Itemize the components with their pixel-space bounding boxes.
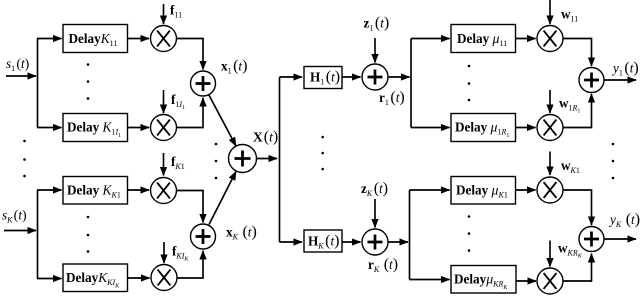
delay block KIK [63, 264, 128, 292]
svg-text:fK1: fK1 [171, 154, 185, 171]
wire into Delay KIK [37, 278, 62, 280]
delay block u11 [451, 25, 516, 53]
svg-text:sK(t): sK(t) [2, 208, 27, 225]
svg-text:yK (t): yK (t) [608, 211, 640, 229]
wire Delay K1I1 to multiplier M2 [128, 127, 150, 129]
wire bus to H1 [280, 76, 303, 78]
svg-text:s1(t): s1(t) [6, 56, 30, 73]
svg-text:xK (t): xK (t) [226, 224, 257, 242]
svg-text:y1(t): y1(t) [611, 60, 639, 78]
wire H1 to adder R1 [342, 76, 361, 78]
wire HK to adder R2 [342, 241, 361, 243]
svg-text:f11: f11 [170, 3, 182, 20]
svg-text:wK1: wK1 [561, 158, 580, 175]
wire bus to Delay uK1 [410, 189, 450, 191]
svg-text:fKIK: fKIK [172, 244, 189, 263]
wire Y1 output y1 [604, 79, 636, 81]
wire s1 branch vertical [37, 39, 39, 128]
adder R2 [362, 229, 388, 255]
wire adder A2 to central adder [209, 172, 236, 225]
central adder X [229, 145, 257, 173]
wire left bus vertical [279, 77, 281, 242]
wire f11 input arrow [163, 4, 165, 24]
wire right bus bottom vertical [409, 190, 411, 280]
svg-text:zK(t): zK(t) [361, 180, 388, 198]
wire Delay K11 to multiplier M1 [128, 38, 150, 40]
wire bus to Delay u11 [411, 38, 450, 40]
svg-text:Delay μK1: Delay μK1 [456, 183, 508, 200]
delay block K11 [63, 25, 128, 53]
wire Delay KK1 to multiplier M3 [128, 189, 150, 191]
delay block K1I1 [63, 114, 128, 142]
svg-text:x1(t): x1(t) [221, 58, 247, 76]
ellipsis right output column [612, 143, 615, 180]
svg-text:w1R1: w1R1 [559, 96, 580, 115]
wire central adder output X(t) [257, 158, 278, 160]
wire sK branch vertical [37, 190, 39, 279]
wire M6 to adder Y1 [563, 94, 592, 128]
multiplier M8 [537, 268, 563, 294]
wire zK input arrow [374, 199, 376, 228]
svg-text:H1(t): H1(t) [310, 69, 340, 87]
ellipsis between u11 and u1R1 [468, 65, 471, 102]
svg-text:X(t): X(t) [253, 129, 278, 146]
adder R1 [362, 64, 388, 90]
adder A1 [191, 71, 216, 96]
wire w1R1 input arrow [549, 90, 551, 113]
svg-text:DelayK11: DelayK11 [69, 31, 118, 48]
wire sK input arrow [4, 230, 36, 232]
wire into Delay K1I1 [37, 127, 62, 129]
wire fK1 input arrow [163, 153, 165, 176]
wire Y2 output yK [604, 238, 636, 240]
svg-text:HK(t): HK(t) [308, 233, 339, 251]
multiplier M2 [151, 115, 177, 141]
svg-text:DelayKKIK: DelayKKIK [66, 270, 120, 289]
wire Delay u11 to multiplier M5 [516, 38, 536, 40]
multiplier M5 [537, 26, 563, 52]
ellipsis between uK1 and uKRK [468, 215, 471, 252]
svg-text:Delay μ1R1: Delay μ1R1 [455, 120, 509, 139]
wire bus to Delay u1R1 [411, 127, 450, 129]
wire R1 output r1 [388, 76, 410, 78]
delay block uKRK [451, 266, 516, 294]
wire bus to HK [280, 241, 303, 243]
wire Delay u1R1 to multiplier M6 [516, 127, 536, 129]
wire Delay KIK to multiplier M4 [128, 277, 150, 279]
svg-text:f1I1: f1I1 [171, 92, 185, 111]
wire Delay uKRK to multiplier M8 [516, 280, 536, 282]
adder Y1 [579, 68, 604, 93]
delay block KK1 [63, 177, 128, 205]
svg-text:Delay KK1: Delay KK1 [67, 183, 121, 200]
delay block uK1 [451, 177, 516, 205]
svg-text:Delay μ11: Delay μ11 [457, 31, 507, 48]
wire into Delay KK1 [37, 189, 62, 191]
delay block u1R1 [451, 114, 516, 142]
svg-text:rK (t): rK (t) [368, 256, 398, 274]
wire M3 to adder A2 [177, 191, 204, 223]
ellipsis between K11 and K1I1 [87, 63, 90, 100]
svg-text:w11: w11 [561, 7, 578, 24]
wire adder A1 to central adder [209, 95, 236, 146]
svg-text:DelayμKRK: DelayμKRK [454, 272, 508, 291]
multiplier M7 [537, 177, 563, 203]
wire wKRK input arrow [549, 241, 551, 267]
wire M4 to adder A2 [177, 251, 203, 278]
wire M1 to adder A1 [177, 39, 204, 70]
svg-text:z1(t): z1(t) [364, 15, 390, 33]
wire fKIK input arrow [163, 242, 165, 263]
wire f1I1 input arrow [163, 90, 165, 113]
wire bus to Delay uKRK [410, 279, 450, 281]
wire into Delay K11 [37, 38, 62, 40]
multiplier M3 [151, 178, 177, 204]
ellipsis between KK1 and KIK [87, 216, 90, 253]
wire M5 to adder Y1 [563, 39, 592, 67]
ellipsis between H1 and HK [321, 136, 324, 171]
ellipsis left of central adder [215, 143, 218, 180]
wire wK1 input arrow [549, 152, 551, 176]
wire Delay uK1 to multiplier M7 [516, 189, 536, 191]
adder Y2 [579, 227, 604, 252]
wire M2 to adder A1 [177, 98, 204, 128]
wire s1 input arrow [6, 75, 36, 77]
channel block HK [304, 230, 342, 252]
svg-text:Delay K1I1: Delay K1I1 [67, 120, 121, 139]
multiplier M1 [151, 26, 177, 52]
wire M7 to adder Y2 [563, 190, 592, 225]
channel block H1 [304, 67, 342, 89]
adder A2 [191, 224, 216, 249]
wire R2 output rK [388, 241, 408, 243]
wire M8 to adder Y2 [563, 254, 592, 281]
wire right bus top vertical [410, 39, 412, 128]
svg-text:r1(t): r1(t) [379, 89, 405, 107]
wire z1 input arrow [374, 38, 376, 63]
multiplier M6 [537, 115, 563, 141]
wire w11 input arrow [549, 0, 551, 24]
ellipsis left input column [23, 140, 26, 178]
multiplier M4 [151, 265, 177, 291]
